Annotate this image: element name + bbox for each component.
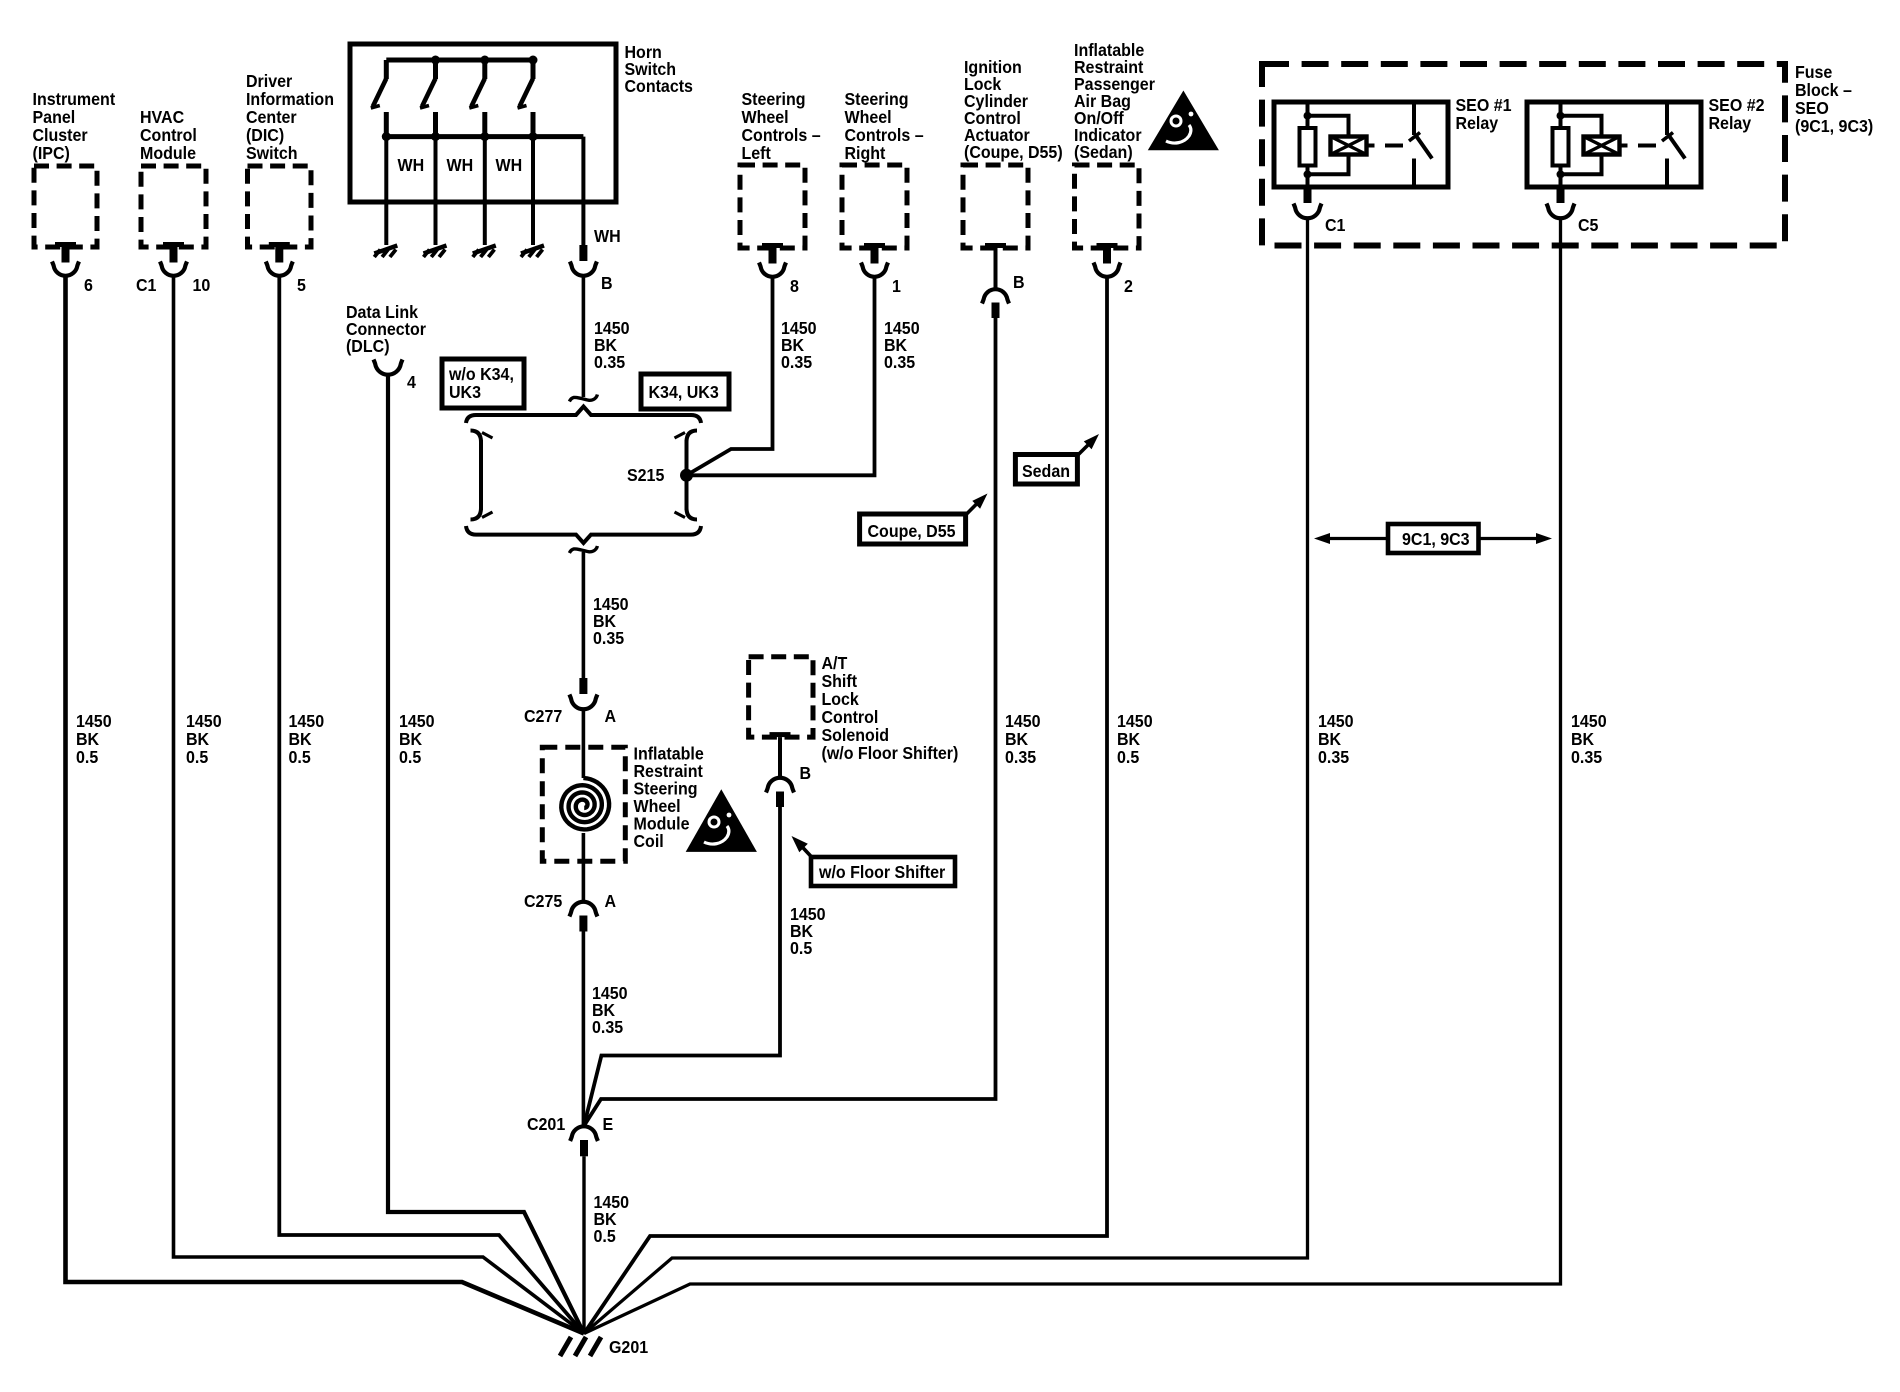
svg-text:Left: Left: [742, 143, 772, 163]
option branch right at splice (K34, UK3 path): [675, 431, 698, 520]
callout Sedan with arrow: [1015, 434, 1099, 484]
wire 1450 BK 0.5 from C201 to G201: [584, 1156, 629, 1333]
component U7 A/T Shift Lock Control Solenoid (w/o Floor Shifter): [749, 653, 959, 763]
wire 1450 BK 0.5 from Indicator pin 2 to G201: [584, 278, 1153, 1334]
component U4 Ignition Lock Cylinder Control Actuator (Coupe, D55): [963, 57, 1063, 248]
wire horn contact 2 to ground: [434, 137, 438, 245]
connector DIC pin 5: [266, 242, 306, 295]
svg-text:w/o Floor Shifter: w/o Floor Shifter: [818, 862, 946, 882]
component S2 Steering Wheel Controls - Left: [740, 89, 821, 248]
svg-text:C275: C275: [524, 891, 562, 911]
svg-text:0.35: 0.35: [593, 628, 624, 648]
switch horn contact 1: [371, 60, 387, 137]
svg-text:Contacts: Contacts: [625, 76, 693, 96]
connector Ignition Lock pin B: [982, 243, 1025, 318]
wire 1450 BK 0.35 from C275 to C201: [583, 932, 627, 1126]
callout 9C1, 9C3 with arrows: [1314, 524, 1552, 553]
svg-text:0.35: 0.35: [781, 352, 812, 372]
svg-text:C1: C1: [136, 275, 156, 295]
svg-text:0.5: 0.5: [790, 938, 812, 958]
svg-text:S215: S215: [627, 465, 664, 485]
connector C201 pin E: [527, 1114, 613, 1156]
svg-text:Sedan: Sedan: [1022, 461, 1070, 481]
wire C277 to coil: [582, 710, 586, 779]
switch horn contact 4: [518, 60, 534, 137]
svg-text:(Sedan): (Sedan): [1074, 142, 1133, 162]
connector C275 pin A: [524, 891, 616, 931]
svg-text:0.5: 0.5: [399, 747, 421, 767]
component S1 Horn Switch Contacts box: [350, 42, 693, 202]
relay SEO #2: [1527, 95, 1765, 187]
wire 1450 BK 0.35 from Ignition Lock pin B to C201: [584, 318, 1041, 1126]
wire break symbol upper: [569, 395, 597, 402]
svg-text:0.5: 0.5: [1117, 747, 1139, 767]
wire horn lower bus: [386, 134, 583, 139]
connector Indicator pin 2: [1094, 243, 1133, 296]
ground horn contact 4: [521, 246, 544, 258]
svg-text:0.35: 0.35: [1005, 747, 1036, 767]
callout w/o Floor Shifter with arrow: [792, 836, 956, 886]
switch horn contact 2: [420, 60, 436, 137]
component U6 Data Link Connector (DLC): [346, 302, 426, 356]
svg-text:Coupe, D55: Coupe, D55: [868, 521, 956, 541]
component U2 HVAC Control Module: [140, 107, 206, 247]
component U1 Instrument Panel Cluster (IPC): [33, 89, 116, 247]
svg-text:0.35: 0.35: [1318, 747, 1349, 767]
connector DLC pin 4: [374, 360, 417, 393]
svg-text:Relay: Relay: [1708, 113, 1751, 133]
callout box K34, UK3: [641, 374, 729, 409]
svg-text:WH: WH: [398, 155, 425, 175]
connector IPC pin 6: [52, 242, 93, 295]
svg-text:Coil: Coil: [634, 831, 664, 851]
ground G201: [560, 1337, 648, 1357]
wire 1450 BK 0.35 option output down to C277: [583, 552, 628, 678]
svg-text:E: E: [603, 1114, 614, 1134]
svg-text:WH: WH: [495, 155, 522, 175]
component Fuse Block - SEO (9C1, 9C3): [1262, 62, 1873, 245]
wire 1450 BK 0.35 horn feed down to option break: [583, 277, 629, 398]
svg-text:WH: WH: [594, 226, 621, 246]
connector HVAC C1 pin 10: [136, 242, 210, 295]
svg-text:WH: WH: [447, 155, 474, 175]
icon airbag warning triangle middle: [686, 789, 757, 852]
ground horn contact 1: [374, 246, 397, 258]
wire 1450 BK 0.35 from SEO #1 relay C1 to G201: [584, 220, 1354, 1334]
ground horn contact 3: [473, 246, 496, 258]
wire 1450 BK 0.5 from IPC pin 6 to G201: [66, 277, 585, 1334]
svg-text:C1: C1: [1325, 215, 1345, 235]
wire 1450 BK 0.5 from HVAC pin 10 to G201: [174, 277, 585, 1334]
connector SW-L pin 8: [759, 243, 799, 296]
svg-text:G201: G201: [609, 1337, 648, 1357]
svg-text:A: A: [604, 891, 616, 911]
callout Coupe, D55 with arrow: [860, 494, 988, 545]
wire horn contact 4 to ground: [531, 137, 535, 245]
splice S215: [627, 465, 693, 485]
callout box w/o K34, UK3: [442, 359, 524, 408]
connector fuse block C5: [1547, 187, 1599, 235]
wire horn feed WH out of box: [583, 137, 620, 247]
wire 1450 BK 0.5 from DLC pin 4 to G201: [388, 375, 584, 1334]
svg-text:(9C1, 9C3): (9C1, 9C3): [1795, 116, 1873, 136]
option brace top: [466, 407, 701, 424]
svg-text:8: 8: [790, 276, 799, 296]
svg-text:Right: Right: [845, 143, 886, 163]
svg-text:UK3: UK3: [449, 382, 481, 402]
relay SEO #1: [1274, 95, 1512, 187]
svg-text:0.5: 0.5: [76, 747, 98, 767]
svg-text:4: 4: [407, 372, 416, 392]
svg-text:0.35: 0.35: [592, 1017, 623, 1037]
option branch left (w/o K34, UK3 path): [471, 431, 493, 520]
svg-text:0.35: 0.35: [1571, 747, 1602, 767]
wire 1450 BK 0.35 from SW-R pin 1 to splice S215: [690, 278, 920, 476]
component L1 Inflatable Restraint Steering Wheel Module Coil: [542, 744, 703, 862]
wire horn contact 1 to ground: [384, 137, 388, 245]
component U3 Driver Information Center (DIC) Switch: [246, 71, 334, 247]
svg-text:0.5: 0.5: [593, 1226, 615, 1246]
svg-text:(w/o Floor Shifter): (w/o Floor Shifter): [821, 743, 958, 763]
svg-text:Module: Module: [140, 143, 196, 163]
svg-text:1: 1: [892, 276, 901, 296]
component U5 Inflatable Restraint Passenger Air Bag On/Off Indicator (Sedan): [1074, 40, 1155, 248]
wire horn contact 3 to ground: [483, 137, 487, 245]
wire 1450 BK 0.5 from DIC pin 5 to G201: [279, 277, 584, 1334]
node horn lower bus junctions: [382, 132, 538, 141]
svg-text:0.5: 0.5: [289, 747, 311, 767]
wire 1450 BK 0.35 from SW-L pin 8 to splice S215: [687, 278, 817, 476]
option brace bottom: [466, 526, 701, 543]
connector fuse block C1: [1294, 187, 1346, 235]
svg-text:(DLC): (DLC): [346, 336, 390, 356]
svg-text:Switch: Switch: [246, 143, 298, 163]
wire horn top bus: [386, 58, 533, 63]
node horn bus junctions: [431, 56, 538, 65]
wire 1450 BK 0.5 from Solenoid pin B to C201: [584, 807, 826, 1126]
component S3 Steering Wheel Controls - Right: [842, 89, 924, 248]
svg-text:B: B: [1013, 272, 1025, 292]
connector horn pin B: [570, 245, 613, 293]
wire coil to C275: [582, 833, 586, 902]
wire break symbol lower: [569, 546, 597, 553]
connector C277 pin A: [524, 678, 616, 726]
svg-text:A: A: [604, 706, 616, 726]
svg-text:2: 2: [1124, 276, 1133, 296]
switch horn contact 3: [469, 60, 485, 137]
connector SW-R pin 1: [861, 243, 901, 296]
svg-text:0.35: 0.35: [884, 352, 915, 372]
svg-text:K34, UK3: K34, UK3: [648, 382, 718, 402]
svg-text:C277: C277: [524, 706, 562, 726]
svg-text:(IPC): (IPC): [33, 143, 70, 163]
svg-text:B: B: [601, 273, 613, 293]
svg-text:B: B: [799, 763, 811, 783]
svg-text:0.35: 0.35: [594, 352, 625, 372]
svg-text:C5: C5: [1578, 215, 1598, 235]
svg-text:6: 6: [84, 275, 93, 295]
svg-text:Relay: Relay: [1455, 113, 1498, 133]
svg-text:5: 5: [297, 275, 306, 295]
svg-text:10: 10: [192, 275, 210, 295]
svg-text:(Coupe, D55): (Coupe, D55): [964, 142, 1063, 162]
svg-text:0.5: 0.5: [186, 747, 208, 767]
svg-text:9C1, 9C3: 9C1, 9C3: [1402, 529, 1470, 549]
svg-text:C201: C201: [527, 1114, 565, 1134]
ground horn contact 2: [424, 246, 447, 258]
wire 1450 BK 0.35 from SEO #2 relay C5 to G201: [584, 220, 1607, 1334]
connector Solenoid pin B: [766, 732, 811, 807]
icon airbag warning triangle top: [1148, 91, 1219, 151]
